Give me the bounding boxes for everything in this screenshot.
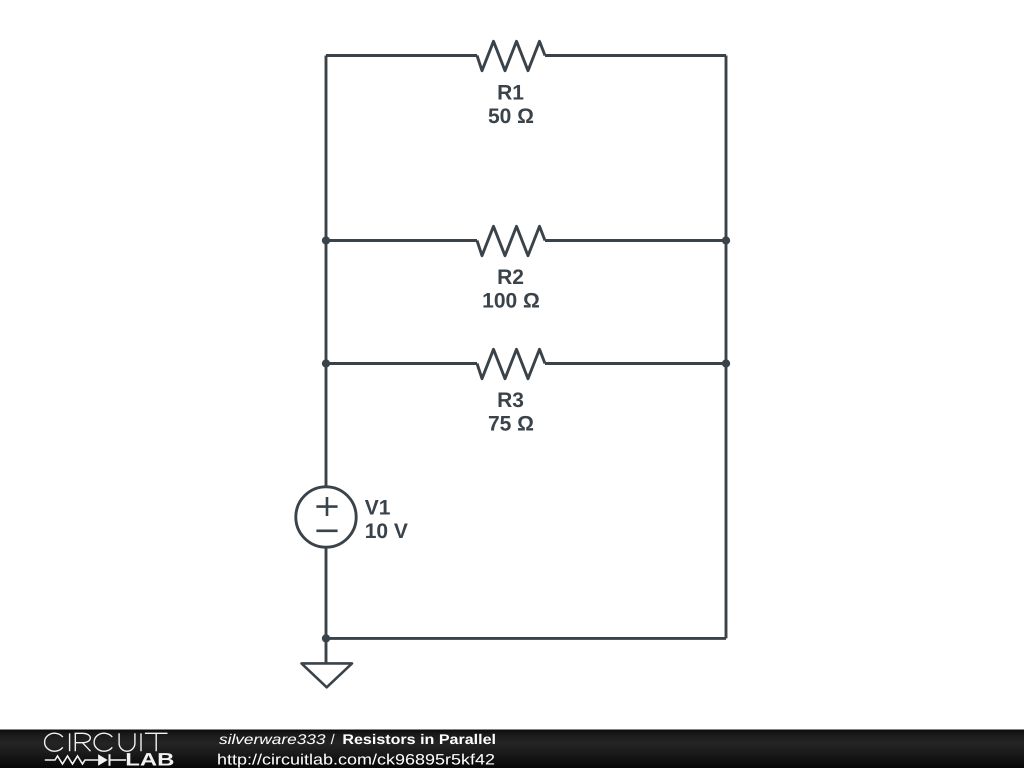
ground xyxy=(302,663,353,687)
wire bottom segment xyxy=(326,637,726,640)
svg-text:50 Ω: 50 Ω xyxy=(488,105,534,128)
logo resistor symbol xyxy=(45,756,98,764)
resistor R3 xyxy=(477,349,545,435)
svg-text:/: / xyxy=(331,731,335,747)
resistor R2 zigzag body xyxy=(477,226,545,255)
node: left rail / R2 junction xyxy=(322,236,330,244)
svg-text:10 V: 10 V xyxy=(365,520,408,543)
logo diode symbol xyxy=(98,754,108,766)
wire left rail (top to V1) xyxy=(325,56,328,487)
svg-text:100 Ω: 100 Ω xyxy=(482,290,540,313)
logo lead wire xyxy=(111,759,127,761)
V1 plus terminal mark xyxy=(316,497,337,516)
resistor R3 zigzag body xyxy=(477,349,545,378)
resistor R2 xyxy=(477,226,545,312)
wire top-left segment xyxy=(326,54,477,57)
footer title line xyxy=(219,731,496,747)
footer bar xyxy=(0,730,1024,768)
svg-text:silverware333: silverware333 xyxy=(219,731,326,747)
resistor R1 xyxy=(477,41,545,128)
node: right rail / R3 junction xyxy=(722,359,730,367)
V1 circle body xyxy=(296,487,356,547)
logo diode cathode bar xyxy=(109,754,111,766)
svg-text:http://circuitlab.com/ck96895r: http://circuitlab.com/ck96895r5kf42 xyxy=(217,752,495,768)
wire R3 right segment xyxy=(545,362,726,365)
wire top-right segment xyxy=(545,54,726,57)
svg-text:R3: R3 xyxy=(497,389,524,412)
svg-text:75 Ω: 75 Ω xyxy=(488,413,534,436)
node: right rail / R2 junction xyxy=(722,236,730,244)
svg-text:Resistors in Parallel: Resistors in Parallel xyxy=(342,731,496,747)
node: bottom / ground junction xyxy=(322,634,330,642)
V1 minus terminal mark xyxy=(316,529,337,532)
svg-text:LAB: LAB xyxy=(125,750,174,768)
wire ground stub xyxy=(325,638,328,663)
wire R3 left segment xyxy=(326,362,477,365)
wire V1 bottom to bottom node xyxy=(325,548,328,638)
svg-text:R2: R2 xyxy=(497,266,524,289)
svg-text:R1: R1 xyxy=(497,82,524,105)
wire R2 left segment xyxy=(326,239,477,242)
wire R2 right segment xyxy=(545,239,726,242)
logo CIRCUIT wordmark xyxy=(45,733,168,751)
voltage source V1 xyxy=(296,487,408,547)
wire right rail xyxy=(725,56,728,639)
svg-text:V1: V1 xyxy=(365,496,391,519)
node: left rail / R3 junction xyxy=(322,359,330,367)
resistor R1 zigzag body xyxy=(477,41,545,70)
